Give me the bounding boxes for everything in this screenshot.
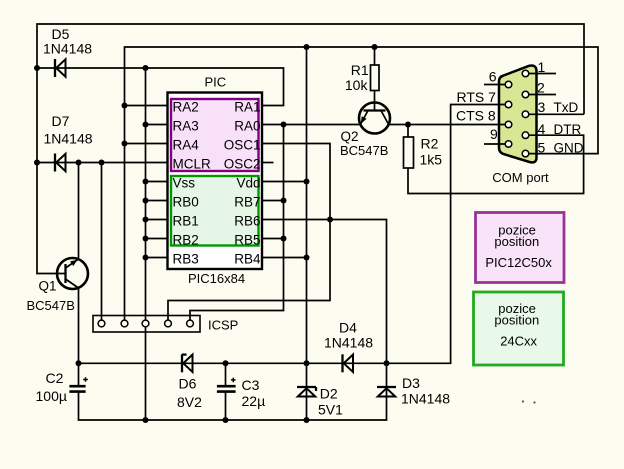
svg-text:C2: C2 — [46, 370, 64, 386]
svg-text:100µ: 100µ — [36, 388, 67, 404]
svg-text:C3: C3 — [242, 377, 260, 393]
svg-text:RB1: RB1 — [173, 214, 199, 229]
svg-text:9: 9 — [490, 126, 498, 142]
svg-text:OSC2: OSC2 — [224, 157, 261, 172]
svg-text:position: position — [494, 313, 539, 328]
svg-text:COM port: COM port — [492, 170, 549, 185]
svg-text:1k5: 1k5 — [420, 152, 443, 168]
svg-text:RB2: RB2 — [173, 233, 199, 248]
svg-text:1N4148: 1N4148 — [401, 391, 450, 407]
svg-text:MCLR: MCLR — [173, 157, 212, 172]
svg-text:RA3: RA3 — [173, 119, 199, 134]
svg-text:D2: D2 — [320, 386, 338, 402]
svg-text:24Cxx: 24Cxx — [500, 334, 537, 349]
svg-text:CTS 8: CTS 8 — [456, 108, 496, 124]
svg-text:TxD: TxD — [554, 100, 579, 115]
svg-text:10k: 10k — [345, 77, 369, 93]
svg-text:BC547B: BC547B — [27, 298, 75, 313]
svg-text:GND: GND — [554, 141, 584, 156]
svg-text:Vdd: Vdd — [236, 176, 260, 191]
svg-text:R1: R1 — [351, 62, 369, 78]
svg-text:5: 5 — [538, 140, 546, 156]
svg-text:8V2: 8V2 — [177, 394, 202, 410]
svg-text:D3: D3 — [402, 375, 420, 391]
svg-text:RB3: RB3 — [173, 252, 199, 267]
svg-text:R2: R2 — [421, 136, 439, 152]
svg-text:RTS 7: RTS 7 — [457, 89, 497, 105]
svg-text:Vss: Vss — [173, 176, 196, 191]
svg-text:D6: D6 — [179, 376, 197, 392]
svg-text:OSC1: OSC1 — [224, 138, 261, 153]
svg-text:RB0: RB0 — [173, 195, 199, 210]
svg-text:1N4148: 1N4148 — [44, 131, 93, 147]
svg-text:1N4148: 1N4148 — [324, 335, 373, 351]
svg-text:Q1: Q1 — [39, 279, 57, 294]
svg-text:RB4: RB4 — [234, 252, 261, 267]
svg-text:22µ: 22µ — [242, 393, 266, 409]
svg-text:RA2: RA2 — [173, 100, 199, 115]
svg-text:RA0: RA0 — [234, 119, 260, 134]
svg-text:RA4: RA4 — [173, 138, 200, 153]
svg-text:DTR: DTR — [554, 122, 582, 137]
svg-text:PIC12C50x: PIC12C50x — [485, 255, 552, 270]
svg-text:BC547B: BC547B — [340, 143, 388, 158]
svg-text:6: 6 — [489, 68, 497, 84]
svg-text:3: 3 — [538, 99, 546, 115]
svg-text:4: 4 — [538, 121, 546, 137]
svg-text:PIC16x84: PIC16x84 — [188, 271, 245, 286]
svg-text:position: position — [494, 234, 539, 249]
svg-text:RB5: RB5 — [234, 233, 260, 248]
svg-text:RB6: RB6 — [234, 214, 260, 229]
svg-text:D4: D4 — [339, 320, 357, 336]
svg-text:2: 2 — [537, 79, 545, 95]
svg-text:D7: D7 — [52, 113, 70, 129]
svg-text:PIC: PIC — [205, 75, 227, 90]
svg-text:RA1: RA1 — [234, 100, 260, 115]
svg-text:1: 1 — [538, 59, 546, 75]
svg-text:Q2: Q2 — [341, 129, 359, 144]
svg-text:5V1: 5V1 — [318, 401, 343, 417]
svg-text:RB7: RB7 — [234, 195, 260, 210]
svg-text:1N4148: 1N4148 — [43, 41, 92, 57]
svg-text:ICSP: ICSP — [208, 318, 238, 333]
